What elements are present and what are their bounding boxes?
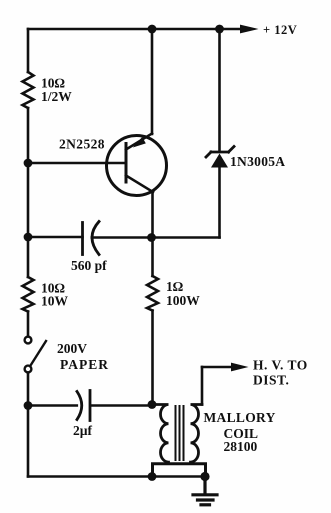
node ground junction [200,472,209,481]
wire HV horizontal [202,366,232,369]
transformer T1 Mallory coil primary winding [152,405,169,463]
svg-text:+ 12V: + 12V [263,23,297,37]
label 200V PAPER [57,341,109,372]
diode D1 1N3005A zener [206,147,234,168]
svg-text:28100: 28100 [224,439,258,454]
capacitor C2 2uf [77,391,90,421]
label 10ohm 10W [41,280,69,308]
svg-text:10W: 10W [41,294,69,309]
wire cap2uf right segment [92,404,153,407]
wire emitter to rail [151,29,154,134]
wire base lead [28,162,126,165]
svg-text:2µf: 2µf [73,423,93,438]
label MALLORY COIL 28100 [204,410,276,454]
wire zener column top [218,29,221,150]
wire collector down [151,192,154,276]
resistor R2 zigzag 10ohm 10W [23,277,34,312]
svg-text:DIST.: DIST. [253,373,289,388]
svg-text:1/2W: 1/2W [41,89,72,104]
label 1ohm 100W [166,279,200,308]
svg-text:PAPER: PAPER [60,357,109,372]
node base junction [24,159,33,168]
wire cap2uf left segment [28,404,77,407]
wire zener column bottom [218,167,221,238]
transformer T1 secondary winding [191,405,203,463]
wire cap560 left segment [28,236,83,239]
svg-text:100W: 100W [166,293,200,308]
node coil primary top junction [148,400,157,409]
wire collector column to coil [151,311,154,405]
resistor R1 zigzag [23,72,34,108]
capacitor C1 560pf [83,222,100,255]
node collector junction [147,233,156,242]
transistor Q1 2N2528 [107,134,167,196]
label H.V. TO DIST. [253,358,308,388]
ground [193,477,217,505]
wire coil common bottom bar [153,464,206,477]
wire left rail mid [27,108,30,277]
wire HV lead up [201,367,204,405]
wire bottom rail [28,475,205,478]
svg-text:200V: 200V [57,341,87,356]
switch S1 breaker points [25,337,46,373]
label 10ohm 1/2W [41,76,72,104]
wire left rail upper [27,29,30,72]
resistor R3 zigzag 1ohm 100W [147,276,158,311]
svg-text:2N2528: 2N2528 [59,137,105,152]
wire cap560 right segment [92,236,220,239]
node zener rail junction [215,25,224,34]
node bottom left junction [148,472,157,481]
node emitter rail junction [148,25,157,34]
svg-text:560 pf: 560 pf [71,258,107,273]
svg-text:H. V. TO: H. V. TO [253,358,308,373]
+12V arrow [240,25,259,34]
svg-text:1Ω: 1Ω [166,279,184,294]
svg-text:1N3005A: 1N3005A [230,154,285,169]
HV arrow [231,363,249,372]
wire top +12V rail [28,28,241,31]
node cap2uf left junction [24,401,33,410]
transformer T1 core [176,406,184,460]
wire left rail below R2 [27,312,30,337]
svg-text:MALLORY: MALLORY [204,410,276,425]
node cap560 left junction [24,233,33,242]
wire left rail below switch [27,373,30,477]
